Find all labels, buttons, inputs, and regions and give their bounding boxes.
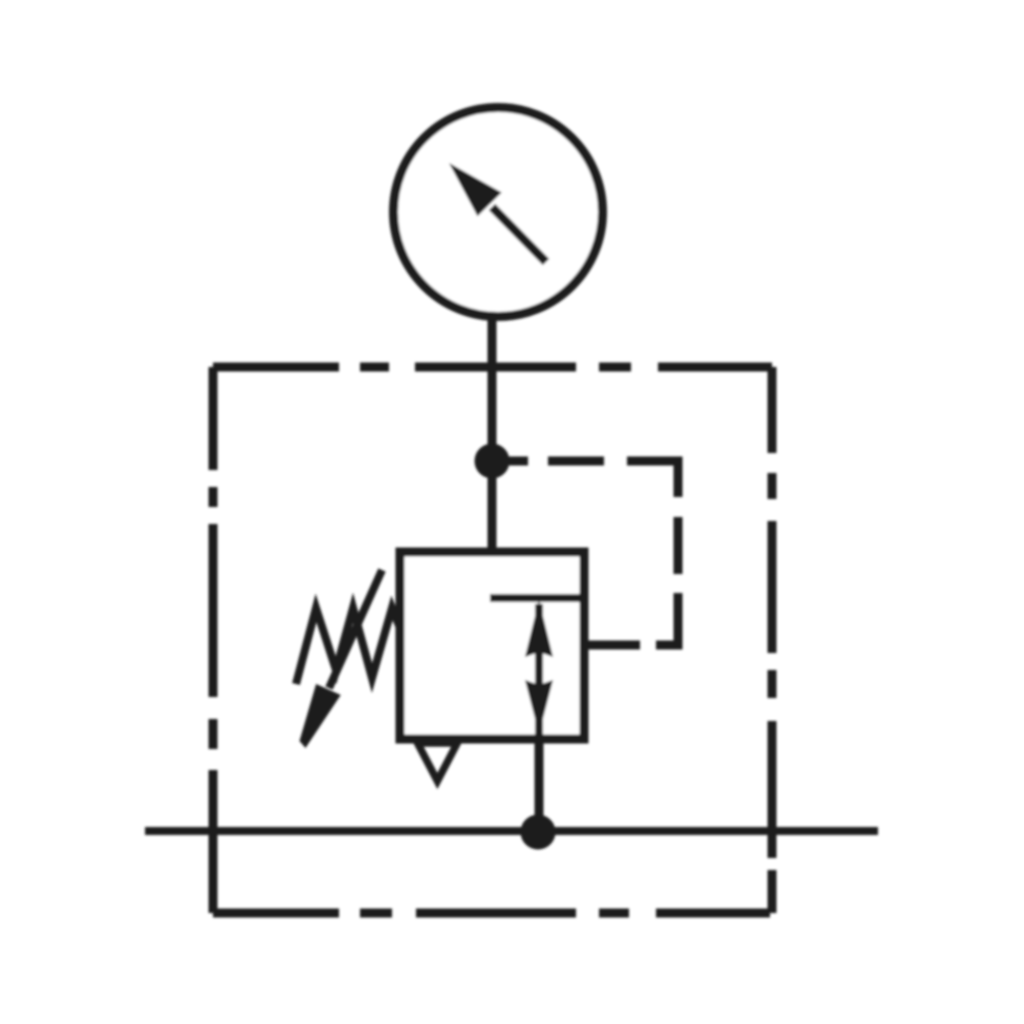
enclosure dash-dot frame: left edge — [209, 367, 218, 913]
adjustment arrow through spring — [300, 570, 383, 748]
node: junction dot on main pressure line — [521, 815, 556, 850]
regulator valve body box — [400, 552, 584, 739]
wire: gauge stem from gauge to regulator box — [488, 312, 497, 556]
regulator internal flow arrow (double headed) — [525, 600, 553, 736]
pressure gauge G1 body — [394, 108, 603, 317]
wire: from regulator bottom to main line — [535, 739, 544, 831]
spring (zigzag) on regulator left side — [296, 608, 400, 684]
enclosure dash-dot frame: bottom edge — [213, 909, 772, 918]
regulator internal passage line — [490, 594, 584, 602]
node: junction dot between gauge and regulator — [475, 444, 510, 479]
main pressure line — [145, 827, 878, 835]
exhaust vent triangle below box — [418, 743, 458, 781]
enclosure dash-dot frame: top edge — [213, 363, 772, 372]
pilot line (dashed) from junction to regulator right side — [492, 461, 678, 645]
pressure gauge G1 needle — [449, 163, 546, 262]
enclosure dash-dot frame: right edge — [768, 367, 777, 913]
